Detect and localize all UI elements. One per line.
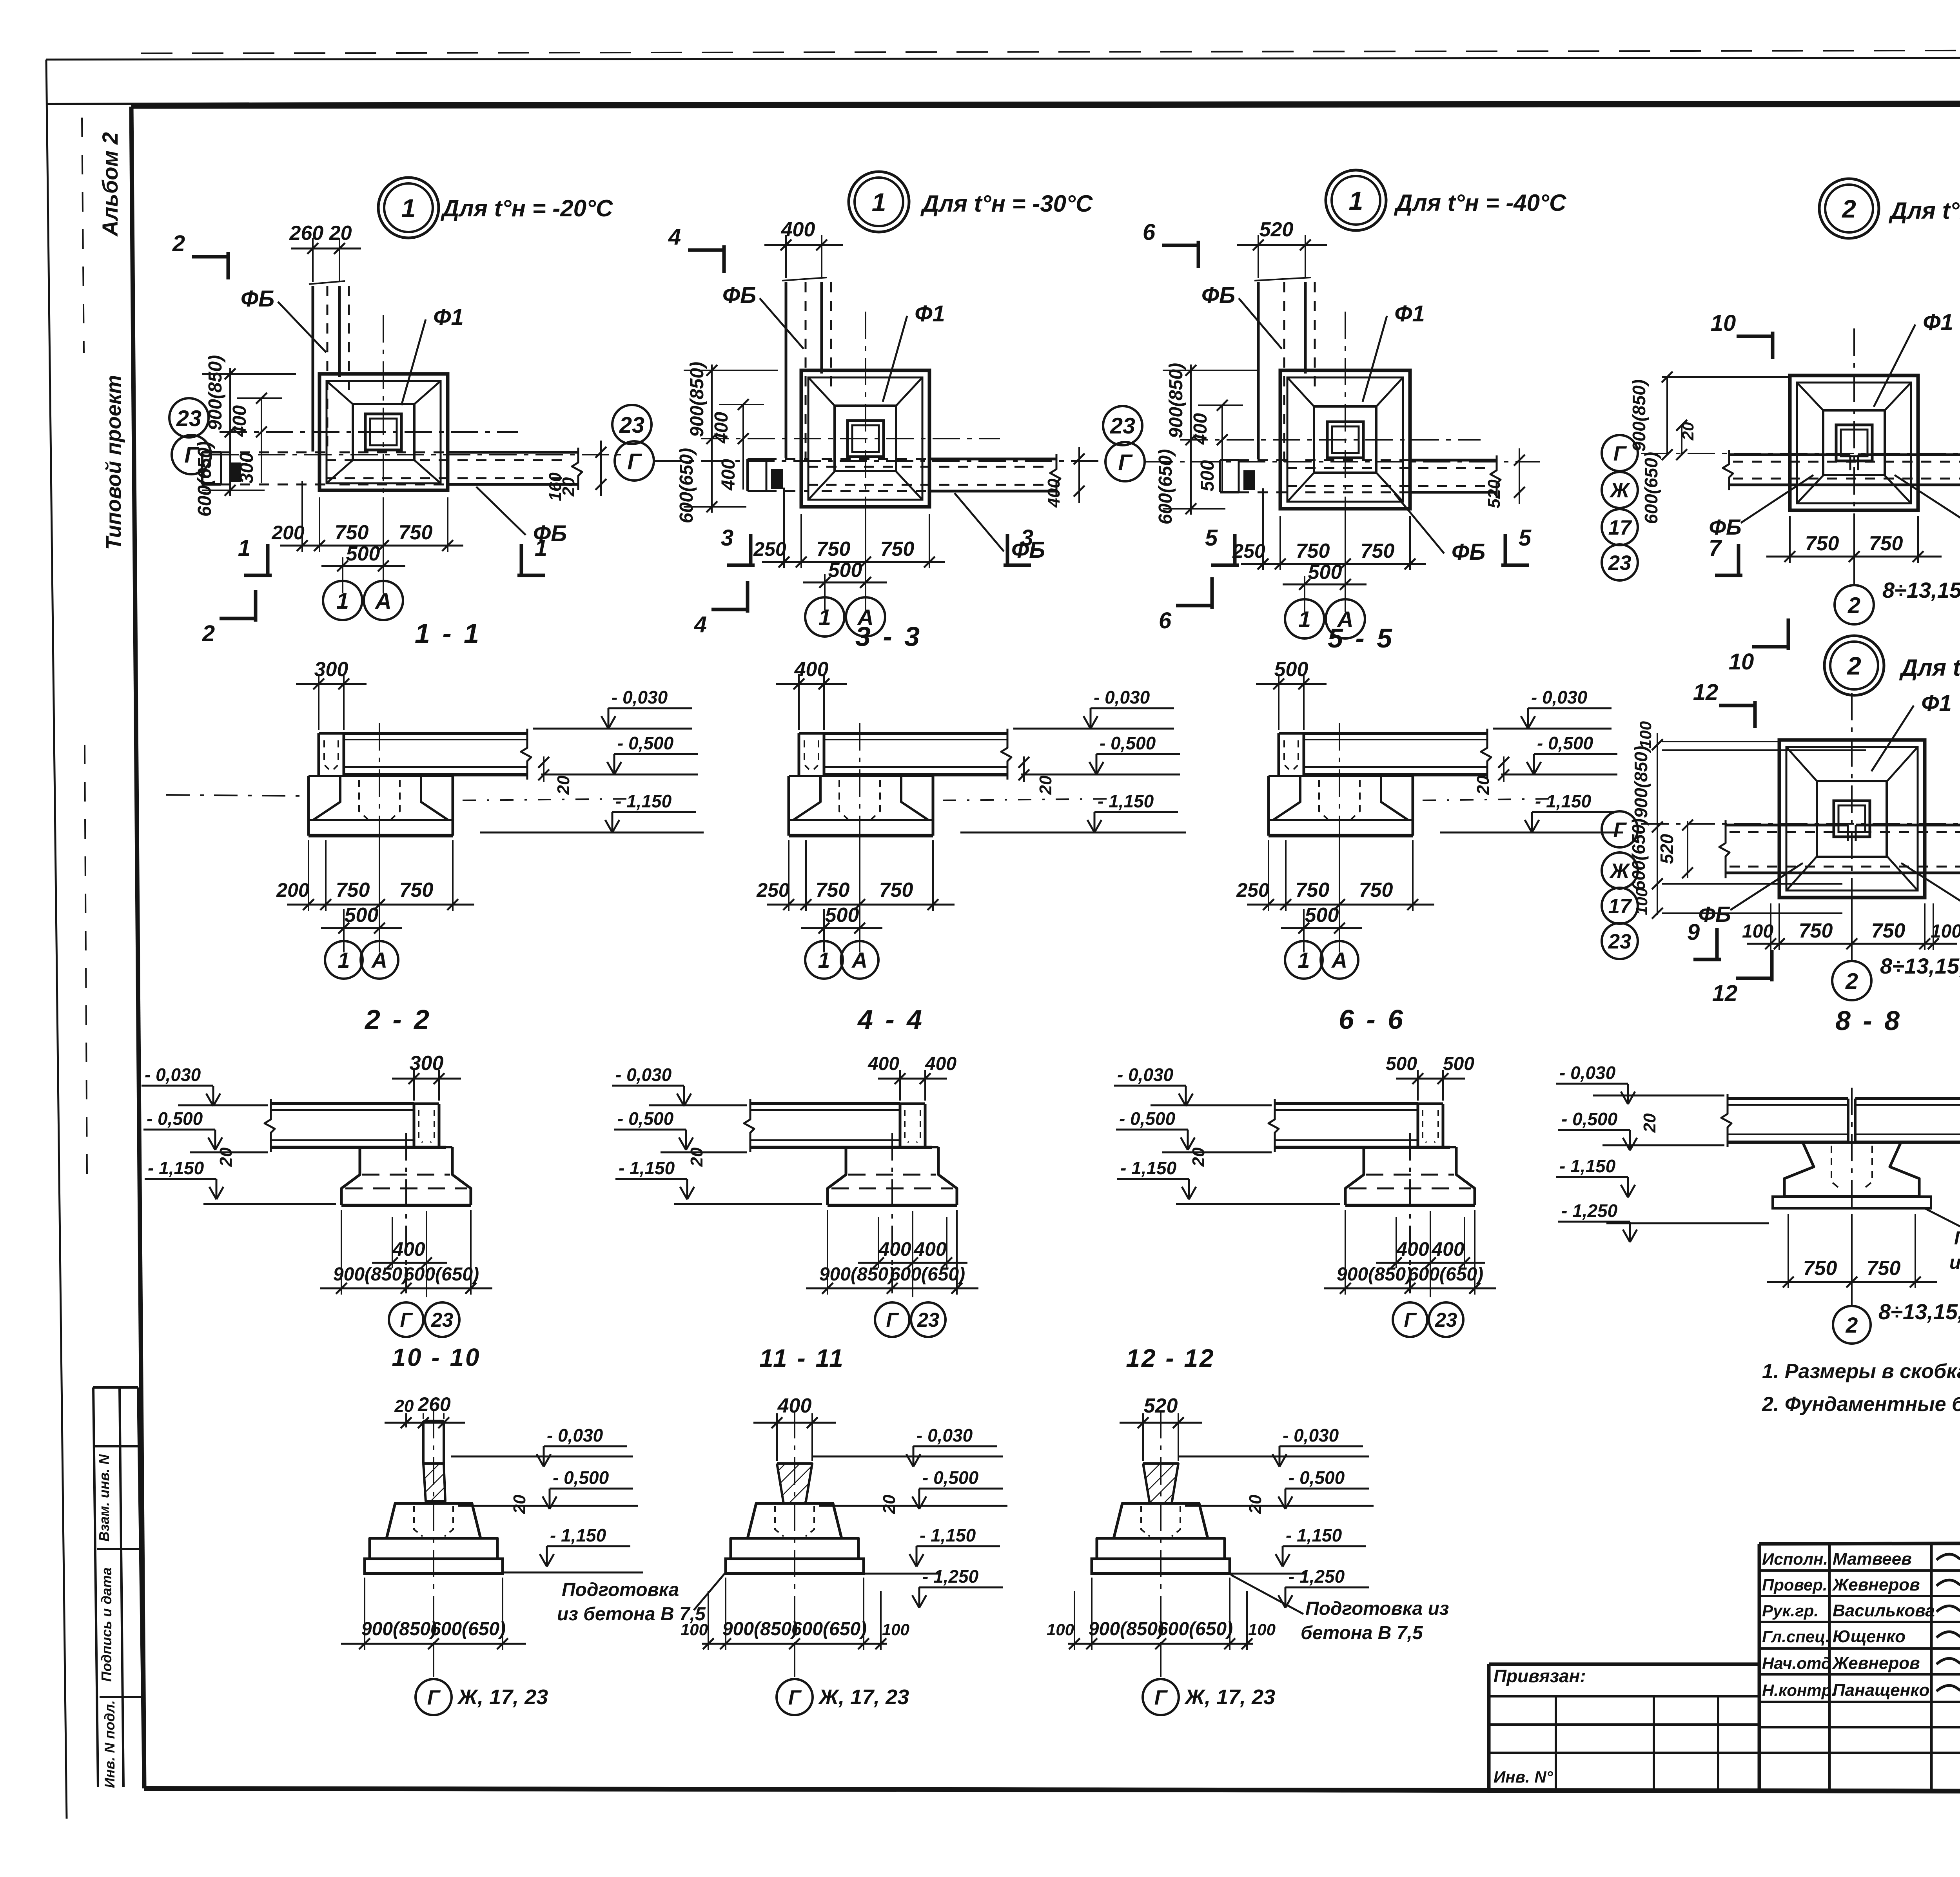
svg-text:8÷13,15,16, Б: 8÷13,15,16, Б [1882,578,1960,602]
svg-text:12: 12 [1693,680,1719,705]
svg-text:ФБ: ФБ [1201,283,1235,308]
svg-text:500: 500 [346,542,380,565]
svg-text:- 1,150: - 1,150 [550,1525,606,1545]
svg-text:Для t°н = -40°C: Для t°н = -40°C [1394,190,1567,216]
svg-text:А: А [1331,948,1347,972]
svg-text:500: 500 [825,904,859,927]
svg-text:Привязан:: Привязан: [1494,1666,1586,1686]
svg-text:23: 23 [1110,413,1135,439]
svg-text:3: 3 [1021,525,1033,551]
svg-text:3 - 3: 3 - 3 [855,621,922,652]
svg-text:600(650): 600(650) [1408,1264,1483,1285]
svg-text:Ж: Ж [1609,860,1630,883]
svg-text:750: 750 [399,879,434,901]
svg-text:250: 250 [1232,540,1265,562]
svg-text:Г: Г [1154,1686,1168,1709]
svg-text:Гл.спец.: Гл.спец. [1762,1627,1830,1646]
svg-text:- 0,030: - 0,030 [612,687,668,707]
svg-text:9: 9 [1687,919,1700,945]
svg-text:Нач.отд: Нач.отд [1762,1654,1831,1672]
svg-text:20: 20 [554,775,573,795]
svg-text:1: 1 [535,535,547,561]
svg-text:- 0,030: - 0,030 [1094,687,1150,707]
svg-text:1: 1 [401,194,416,223]
svg-text:- 0,030: - 0,030 [1559,1063,1616,1083]
svg-text:Провер.: Провер. [1762,1576,1828,1594]
svg-text:100: 100 [1636,721,1655,749]
svg-text:260: 260 [417,1393,451,1415]
svg-text:2: 2 [1845,969,1858,994]
svg-text:- 1,250: - 1,250 [922,1566,979,1587]
svg-text:500: 500 [1386,1054,1417,1074]
svg-text:520: 520 [1144,1395,1178,1417]
svg-text:1: 1 [336,589,349,614]
svg-text:1: 1 [872,188,886,217]
svg-text:750: 750 [817,538,851,560]
svg-text:1. Размеры в скобках даны для: 1. Размеры в скобках даны для осей А, Б,… [1762,1360,1960,1383]
svg-text:Г: Г [886,1309,899,1331]
svg-text:400: 400 [913,1238,947,1260]
svg-text:300: 300 [236,452,257,484]
svg-text:- 0,030: - 0,030 [547,1425,603,1445]
svg-text:520: 520 [1657,834,1677,864]
svg-text:400: 400 [867,1054,899,1074]
svg-text:Альбом 2: Альбом 2 [98,132,122,237]
svg-text:4: 4 [668,224,681,250]
svg-text:- 1,150: - 1,150 [148,1158,204,1178]
svg-text:2 - 2: 2 - 2 [364,1004,432,1035]
svg-text:- 0,030: - 0,030 [145,1065,201,1085]
svg-text:Жевнеров: Жевнеров [1832,1575,1920,1594]
svg-text:Ж, 17, 23: Ж, 17, 23 [457,1685,548,1709]
svg-text:500: 500 [1443,1054,1474,1074]
svg-text:Жевнеров: Жевнеров [1832,1654,1920,1673]
svg-text:1: 1 [1349,186,1363,215]
svg-text:Подготовка: Подготовка [1954,1228,1960,1249]
svg-text:600(650): 600(650) [1158,1619,1233,1639]
svg-text:20: 20 [1189,1147,1208,1167]
svg-text:ФБ: ФБ [1452,539,1485,565]
svg-text:400: 400 [1396,1238,1429,1260]
svg-text:250: 250 [753,538,786,560]
svg-text:- 1,250: - 1,250 [1561,1201,1618,1221]
svg-text:750: 750 [1867,1257,1901,1280]
svg-text:Г: Г [427,1686,441,1709]
svg-text:- 1,150: - 1,150 [1535,791,1592,811]
svg-text:бетона В 7,5: бетона В 7,5 [1301,1623,1423,1643]
svg-text:20: 20 [1474,775,1493,795]
svg-text:10: 10 [1729,649,1754,675]
svg-text:2: 2 [202,621,215,646]
svg-text:17: 17 [1608,516,1632,539]
svg-text:400: 400 [1044,479,1063,508]
svg-text:из бетона В 7,5: из бетона В 7,5 [1949,1252,1960,1273]
svg-text:400: 400 [781,218,815,241]
svg-text:6 - 6: 6 - 6 [1339,1004,1405,1035]
svg-text:300: 300 [410,1052,444,1075]
svg-text:2: 2 [1847,593,1860,618]
svg-text:900(850): 900(850) [819,1264,895,1285]
svg-text:- 0,500: - 0,500 [1100,733,1156,753]
svg-text:11 - 11: 11 - 11 [759,1344,845,1372]
svg-text:750: 750 [1799,919,1833,942]
svg-text:400: 400 [878,1238,911,1260]
svg-text:Г: Г [788,1686,802,1709]
svg-text:- 1,150: - 1,150 [615,791,672,811]
svg-text:Ф1: Ф1 [433,305,464,330]
svg-text:10 - 10: 10 - 10 [392,1343,481,1371]
svg-text:20: 20 [1640,1113,1659,1133]
svg-text:Ф1: Ф1 [915,301,945,326]
svg-text:23: 23 [176,406,201,431]
svg-text:5: 5 [1205,525,1218,551]
svg-text:ФБ: ФБ [722,283,756,308]
svg-text:100: 100 [1742,921,1773,942]
svg-text:А: А [371,948,387,972]
svg-text:250: 250 [756,879,789,901]
svg-text:ФБ: ФБ [241,286,274,312]
svg-text:- 0,500: - 0,500 [922,1467,979,1488]
svg-text:Василькова: Василькова [1833,1601,1935,1620]
svg-text:Подготовка из: Подготовка из [1305,1598,1449,1619]
svg-text:900(850): 900(850) [333,1264,408,1285]
svg-text:Г: Г [184,443,199,468]
svg-text:- 0,500: - 0,500 [147,1108,203,1129]
svg-text:600(650): 600(650) [1628,818,1649,890]
svg-text:400: 400 [229,405,250,437]
svg-text:750: 750 [1803,1257,1837,1280]
svg-text:900(850): 900(850) [722,1619,798,1639]
svg-text:6: 6 [1143,219,1156,245]
svg-text:Для t°н = -30°C: Для t°н = -30°C [920,190,1093,217]
svg-text:260 20: 260 20 [289,222,352,245]
svg-text:Панащенко: Панащенко [1833,1681,1929,1700]
svg-text:Ж, 17, 23: Ж, 17, 23 [818,1685,909,1709]
svg-text:400: 400 [794,658,829,681]
svg-text:- 1,150: - 1,150 [1559,1156,1616,1176]
svg-text:20: 20 [1036,775,1055,795]
svg-text:1: 1 [1298,948,1310,972]
svg-text:23: 23 [1608,930,1632,953]
svg-text:20: 20 [880,1494,899,1514]
svg-text:20: 20 [510,1494,529,1514]
svg-text:520: 520 [1259,218,1294,241]
svg-text:7: 7 [1709,535,1722,561]
svg-text:500: 500 [345,904,379,927]
svg-text:750: 750 [335,521,369,544]
svg-text:Н.контр.: Н.контр. [1762,1681,1836,1699]
svg-text:2. Фундаментные балки укладыва: 2. Фундаментные балки укладываются на це… [1762,1393,1960,1416]
svg-text:8 - 8: 8 - 8 [1835,1005,1902,1036]
svg-text:100: 100 [1248,1620,1276,1639]
svg-text:20: 20 [394,1396,414,1416]
svg-text:750: 750 [880,538,915,560]
svg-text:Ж: Ж [1609,479,1630,502]
svg-text:600(650): 600(650) [404,1264,479,1285]
svg-text:Рук.гр.: Рук.гр. [1762,1601,1818,1620]
svg-text:20: 20 [559,477,578,497]
svg-text:1: 1 [818,948,830,972]
svg-text:10: 10 [1711,310,1736,336]
svg-text:А: А [851,948,867,972]
svg-text:- 1,150: - 1,150 [1098,791,1154,811]
svg-text:Г: Г [400,1309,413,1331]
svg-text:Г: Г [1118,450,1133,475]
svg-text:400: 400 [1190,413,1211,445]
svg-text:900(850): 900(850) [1629,379,1649,452]
svg-text:100: 100 [1632,888,1651,915]
svg-text:900(850): 900(850) [1166,363,1187,438]
svg-text:400: 400 [392,1238,425,1260]
svg-text:400: 400 [711,412,732,444]
svg-text:8÷13,15,16, Б: 8÷13,15,16, Б [1880,954,1960,978]
svg-text:5 - 5: 5 - 5 [1328,623,1394,653]
svg-text:600(650): 600(650) [890,1264,965,1285]
svg-text:250: 250 [1236,879,1269,901]
svg-text:Подготовка: Подготовка [562,1580,679,1600]
svg-text:- 1,250: - 1,250 [1289,1566,1345,1587]
svg-text:- 0,500: - 0,500 [1537,733,1593,753]
svg-text:600(650): 600(650) [791,1619,867,1639]
svg-text:300: 300 [314,658,348,681]
svg-text:Ф1: Ф1 [1923,310,1953,335]
svg-text:750: 750 [1296,879,1330,901]
svg-text:750: 750 [336,879,370,901]
svg-text:750: 750 [1805,532,1839,555]
svg-text:- 1,150: - 1,150 [619,1158,675,1178]
svg-text:500: 500 [828,559,862,582]
svg-text:Исполн.: Исполн. [1762,1550,1828,1568]
svg-text:- 1,150: - 1,150 [1286,1525,1342,1545]
svg-text:17: 17 [1608,895,1632,918]
svg-text:Ф1: Ф1 [1921,691,1952,716]
svg-text:1: 1 [338,948,350,972]
svg-text:750: 750 [1359,879,1393,901]
svg-text:20: 20 [216,1147,236,1167]
svg-text:500: 500 [1197,460,1218,491]
svg-text:750: 750 [399,521,433,544]
svg-text:1: 1 [818,605,831,630]
svg-text:600(650): 600(650) [676,448,697,523]
svg-text:520: 520 [1485,479,1504,508]
svg-text:400: 400 [925,1054,956,1074]
svg-text:3: 3 [721,525,733,551]
svg-text:- 0,030: - 0,030 [1531,687,1588,707]
svg-text:100: 100 [1931,921,1960,942]
svg-text:ФБ: ФБ [1698,902,1731,927]
svg-text:- 0,030: - 0,030 [1283,1425,1339,1445]
svg-text:750: 750 [1296,540,1330,562]
svg-text:Г: Г [627,449,642,474]
svg-text:750: 750 [1361,540,1395,562]
svg-text:Для t°н = -20°C: Для t°н = -20°C [440,195,613,221]
svg-text:400: 400 [1431,1238,1465,1260]
svg-text:- 0,500: - 0,500 [1561,1109,1618,1129]
svg-text:900(850): 900(850) [1631,746,1651,818]
svg-text:Для t°н = -40°C: Для t°н = -40°C [1899,655,1960,681]
svg-text:6: 6 [1159,608,1172,633]
svg-text:500: 500 [1274,658,1308,681]
svg-text:Г: Г [1613,818,1627,841]
svg-text:900(850): 900(850) [1337,1264,1412,1285]
svg-text:600(650): 600(650) [1155,449,1176,524]
svg-text:23: 23 [1435,1309,1457,1331]
svg-text:Для t°н = -20°C: Для t°н = -20°C [1888,198,1960,224]
svg-text:Ф1: Ф1 [1394,301,1425,326]
svg-text:20: 20 [1246,1494,1265,1514]
svg-text:20: 20 [687,1147,706,1167]
svg-text:100: 100 [882,1620,909,1639]
svg-text:Инв. N°: Инв. N° [1494,1768,1553,1786]
svg-text:100: 100 [1047,1620,1074,1639]
svg-text:- 0,500: - 0,500 [553,1467,609,1488]
svg-text:1: 1 [1298,607,1311,632]
svg-text:12 - 12: 12 - 12 [1126,1344,1215,1372]
svg-text:Взам. инв. N: Взам. инв. N [96,1454,112,1542]
svg-text:Г: Г [1404,1309,1417,1331]
svg-text:- 1,150: - 1,150 [1120,1158,1177,1178]
svg-text:- 0,030: - 0,030 [916,1425,973,1445]
svg-text:2: 2 [1846,1313,1858,1337]
svg-text:900(850): 900(850) [1089,1619,1164,1639]
svg-text:5: 5 [1519,525,1532,551]
svg-text:500: 500 [1305,904,1339,927]
svg-text:Г: Г [1613,442,1627,465]
svg-text:2: 2 [1847,652,1861,680]
svg-text:23: 23 [1608,551,1632,575]
svg-text:400: 400 [718,459,739,491]
svg-text:2: 2 [172,231,185,256]
svg-text:4 - 4: 4 - 4 [857,1004,924,1035]
svg-text:- 0,500: - 0,500 [617,733,674,753]
svg-text:600(650): 600(650) [1641,452,1661,524]
svg-text:- 1,150: - 1,150 [920,1525,976,1545]
svg-text:А: А [374,589,392,614]
svg-text:2: 2 [1842,195,1856,223]
svg-text:Ж, 17, 23: Ж, 17, 23 [1184,1685,1275,1709]
svg-text:- 0,030: - 0,030 [615,1065,672,1085]
svg-text:12: 12 [1712,981,1738,1006]
svg-text:900(850): 900(850) [361,1619,437,1639]
svg-text:23: 23 [431,1309,453,1331]
svg-text:750: 750 [1869,532,1903,555]
svg-text:Подпись и дата: Подпись и дата [98,1567,114,1682]
svg-text:23: 23 [619,413,644,438]
svg-text:Ющенко: Ющенко [1833,1627,1906,1646]
svg-text:1 - 1: 1 - 1 [415,618,481,649]
svg-text:Типовой проект: Типовой проект [102,375,125,550]
svg-text:750: 750 [816,879,850,901]
svg-text:8÷13,15,16, Б: 8÷13,15,16, Б [1878,1299,1960,1324]
svg-text:600(650): 600(650) [430,1619,506,1639]
svg-text:- 0,500: - 0,500 [1119,1108,1176,1129]
svg-text:750: 750 [1871,919,1906,942]
svg-text:200: 200 [271,522,305,544]
svg-text:23: 23 [917,1309,939,1331]
svg-text:- 0,500: - 0,500 [1289,1467,1345,1488]
svg-text:200: 200 [276,879,309,901]
svg-text:из бетона В 7,5: из бетона В 7,5 [557,1604,706,1625]
svg-text:Инв. N подл.: Инв. N подл. [102,1700,118,1788]
svg-text:- 0,030: - 0,030 [1117,1065,1174,1085]
svg-text:1: 1 [238,535,250,561]
svg-text:4: 4 [694,612,707,637]
svg-text:900(850): 900(850) [687,362,708,437]
svg-text:- 0,500: - 0,500 [617,1108,674,1129]
svg-text:500: 500 [1308,561,1342,584]
svg-text:Матвеев: Матвеев [1833,1549,1912,1569]
svg-text:400: 400 [777,1395,812,1417]
svg-text:750: 750 [879,879,913,901]
